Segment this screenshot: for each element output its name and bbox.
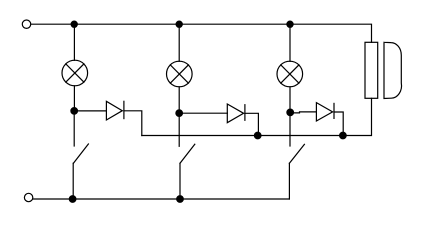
wire diode 1 output step down	[124, 111, 142, 136]
node top of branch 3	[287, 21, 293, 27]
wire diode 2 output step down	[245, 113, 259, 135]
switch S2 fixed contact wire	[178, 116, 180, 146]
wire lamp L3 to node	[289, 87, 291, 113]
switch S2 blade	[180, 144, 195, 163]
buzzer H1 body	[365, 42, 378, 98]
diode D2	[227, 104, 245, 123]
buzzer H1 horn	[384, 42, 402, 98]
node top of branch 2	[176, 21, 182, 27]
wire node B to diode 2	[179, 112, 227, 114]
wire node C to diode 3 (with small jog)	[290, 112, 316, 113]
node C (branch3 / diode 3 tap)	[287, 109, 294, 116]
wire branch 1 drop to lamp	[73, 24, 75, 60]
wire top rail	[31, 24, 372, 42]
switch S3 blade	[289, 144, 304, 163]
wire switch S3 to bottom rail corner	[288, 163, 290, 199]
node top of branch 1	[71, 21, 77, 27]
terminal X2 (bottom left)	[24, 193, 32, 201]
wire branch 2 drop to lamp	[178, 24, 180, 61]
switch S3 fixed contact wire	[289, 115, 291, 146]
node B (branch2 / diode 2 tap)	[176, 110, 183, 117]
wire bottom rail	[33, 198, 290, 200]
switch S1 blade	[73, 144, 88, 163]
lamp L2	[167, 61, 193, 87]
diode D1	[106, 101, 124, 120]
wire diode output rail	[142, 98, 372, 135]
node F (switch1 joins bottom rail)	[69, 196, 76, 203]
lamp L1	[62, 60, 88, 86]
wire switch S2 to bottom rail	[179, 163, 181, 199]
lamp L3	[277, 61, 303, 87]
terminal X1 (top left)	[22, 20, 30, 28]
wire lamp L1 to node	[73, 86, 75, 111]
node D (diode 2 joins rail)	[254, 132, 261, 139]
switch S1 fixed contact wire	[73, 114, 75, 146]
node E (diode 3 joins rail)	[340, 132, 347, 139]
wire branch 3 drop to lamp	[289, 24, 291, 61]
node G (switch2 joins bottom rail)	[177, 196, 184, 203]
wire lamp L2 to node	[178, 87, 180, 113]
wire switch S1 to bottom rail	[72, 163, 74, 199]
node A (branch1 / diode 1 tap)	[71, 108, 78, 115]
diode D3	[316, 103, 334, 121]
wire diode 3 output step down	[334, 112, 343, 136]
wire node A to diode 1	[74, 110, 106, 112]
